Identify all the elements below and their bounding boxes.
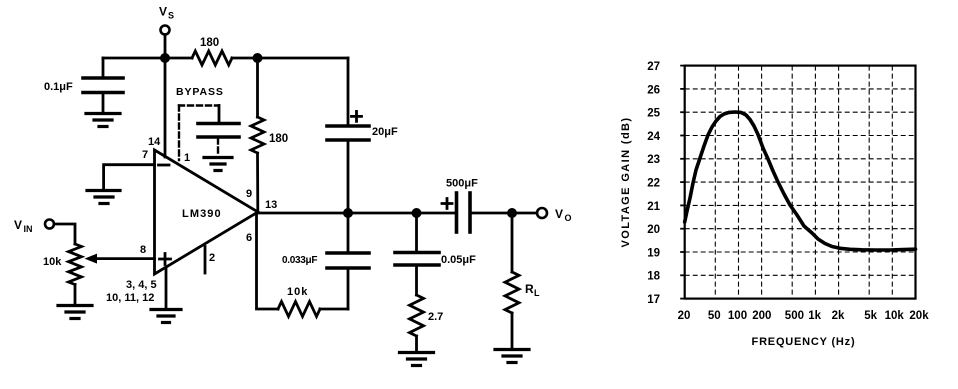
wire top rail right (232, 57, 348, 60)
node output junction 3 (507, 208, 517, 218)
svg-text:BYPASS: BYPASS (176, 86, 224, 98)
label RL (525, 282, 540, 298)
node Vs-rail junction (160, 53, 170, 63)
pin 13 (265, 199, 277, 211)
svg-text:500: 500 (785, 310, 804, 322)
ground below RL (495, 350, 529, 363)
label 0.05uF (441, 254, 476, 266)
svg-text:10k: 10k (885, 310, 905, 322)
wire 20uF top (347, 58, 350, 124)
wire top rail left (103, 57, 192, 60)
svg-text:L: L (534, 288, 540, 298)
wire 10k to 0.033 (320, 308, 348, 311)
x axis labels (678, 310, 930, 322)
resistor RL (505, 272, 519, 313)
svg-text:180: 180 (269, 133, 288, 145)
label pins 10,11,12 (106, 292, 154, 304)
pot wiper arrow (94, 257, 155, 260)
y axis labels (647, 61, 660, 306)
svg-text:20: 20 (678, 310, 691, 322)
pin 1 (184, 152, 190, 164)
op-amp U1 LM390 (155, 150, 259, 274)
svg-text:200: 200 (752, 310, 771, 322)
pin 8 (140, 244, 146, 256)
ground pin7 (87, 191, 120, 204)
svg-text:2: 2 (209, 252, 215, 264)
svg-text:2k: 2k (832, 310, 845, 322)
wire bypass dashed (179, 106, 219, 161)
svg-text:500μF: 500μF (446, 178, 478, 190)
label 10k feedback (287, 286, 308, 298)
wire pin14 supply (164, 58, 167, 157)
capacitor C 0.033uF (347, 213, 350, 251)
svg-text:25: 25 (647, 108, 660, 120)
pin 7 (142, 149, 148, 161)
svg-text:9: 9 (246, 188, 252, 200)
svg-text:20: 20 (647, 224, 660, 236)
label 10k pot (43, 256, 62, 268)
label 0.033uF (282, 255, 317, 266)
resistor R 2.7 (410, 295, 424, 336)
svg-text:O: O (565, 213, 572, 223)
wire minus input to ground (104, 165, 155, 189)
label 500uF (446, 178, 478, 190)
op-amp minus input mark (159, 164, 170, 167)
pin 14 (148, 136, 161, 148)
wire bypass cap to ground dashed (217, 139, 219, 157)
wire Vin to pot (54, 224, 75, 244)
svg-text:20μF: 20μF (372, 126, 398, 138)
svg-text:0.05μF: 0.05μF (441, 254, 476, 266)
capacitor C 20uF (327, 124, 369, 128)
node output junction 1 (343, 208, 353, 218)
ground gnd pins (151, 310, 181, 323)
svg-text:1: 1 (184, 152, 190, 164)
curve voltage gain (685, 112, 916, 250)
svg-text:10k: 10k (43, 256, 62, 268)
wire Vs to top rail (164, 35, 167, 59)
svg-text:20k: 20k (909, 310, 929, 322)
terminal Vo (537, 208, 547, 218)
label 20uF (372, 126, 398, 138)
svg-text:5k: 5k (864, 310, 877, 322)
wire output line (258, 212, 455, 215)
plot border (685, 66, 916, 299)
label LM390 (182, 208, 222, 220)
terminal Vin (45, 220, 54, 229)
svg-text:21: 21 (647, 201, 660, 213)
svg-text:7: 7 (142, 149, 148, 161)
svg-text:13: 13 (265, 199, 277, 211)
capacitor C 500uF (455, 193, 459, 232)
pin 9 (246, 188, 252, 200)
ground bypass (204, 158, 232, 171)
wire gnd pins stub (165, 268, 168, 309)
svg-text:IN: IN (24, 224, 33, 234)
svg-text:10, 11, 12: 10, 11, 12 (106, 292, 154, 304)
resistor R 10k feedback (278, 302, 320, 317)
ground below pot (58, 306, 92, 319)
wire bypass cap stub (218, 106, 221, 123)
label 2.7 (428, 311, 443, 323)
svg-text:26: 26 (647, 84, 660, 96)
svg-text:1k: 1k (808, 310, 821, 322)
y axis ticks (680, 66, 685, 299)
label 180 vertical (269, 133, 288, 145)
wire 20uF bottom (347, 142, 350, 213)
svg-text:V: V (159, 5, 167, 19)
label Vs (159, 5, 174, 21)
resistor R 180 (top) (192, 51, 232, 65)
terminal Vs (161, 26, 170, 35)
svg-text:VOLTAGE GAIN (dB): VOLTAGE GAIN (dB) (620, 117, 632, 248)
svg-text:FREQUENCY (Hz): FREQUENCY (Hz) (752, 336, 856, 348)
ground below 2.7 (400, 353, 434, 366)
svg-text:23: 23 (647, 154, 660, 166)
graph frequency response (620, 61, 929, 348)
pin 2 stub (204, 247, 207, 274)
svg-text:24: 24 (647, 131, 660, 143)
svg-text:V: V (14, 218, 22, 232)
svg-text:V: V (555, 207, 563, 221)
label 0.1uF (44, 81, 73, 93)
svg-text:17: 17 (647, 294, 660, 306)
node output junction 2 (412, 208, 422, 218)
svg-text:27: 27 (647, 61, 660, 73)
svg-text:10k: 10k (287, 286, 308, 298)
pin 2 (209, 252, 215, 264)
grid horizontal lines (685, 89, 916, 275)
svg-text:3, 4, 5: 3, 4, 5 (126, 279, 157, 291)
svg-text:LM390: LM390 (182, 208, 222, 220)
ground below 0.1uF (86, 114, 120, 127)
node rail junction (253, 53, 263, 63)
grid vertical lines (715, 66, 892, 299)
svg-text:180: 180 (200, 37, 219, 49)
svg-text:0.1μF: 0.1μF (44, 81, 73, 93)
label BYPASS (176, 86, 224, 98)
svg-text:22: 22 (647, 178, 660, 190)
capacitor C 0.1uF (102, 58, 105, 77)
op-amp plus input mark (160, 254, 171, 265)
resistor R 180 (vertical) (256, 58, 259, 117)
pin 6 (246, 232, 252, 244)
svg-text:19: 19 (647, 247, 660, 259)
svg-text:8: 8 (140, 244, 146, 256)
svg-text:100: 100 (728, 310, 747, 322)
svg-text:S: S (168, 11, 174, 21)
capacitor bypass (198, 122, 239, 126)
wire pin6 feedback (257, 214, 279, 309)
svg-text:6: 6 (246, 232, 252, 244)
label Vin (14, 218, 33, 234)
potentiometer R 10k (69, 244, 82, 285)
wire RL (511, 213, 514, 272)
wire 500uF to Vo (470, 212, 537, 215)
svg-text:14: 14 (148, 136, 161, 148)
svg-text:50: 50 (708, 310, 721, 322)
svg-text:2.7: 2.7 (428, 311, 443, 323)
label + 20uF (352, 111, 362, 121)
label + 500uF (442, 199, 452, 209)
svg-text:18: 18 (647, 271, 660, 283)
label 180 top (200, 37, 219, 49)
label Vo (555, 207, 572, 223)
svg-text:0.033μF: 0.033μF (282, 255, 317, 266)
capacitor C 0.05uF (415, 213, 418, 251)
label pins 3,4,5 (126, 279, 157, 291)
svg-text:R: R (525, 282, 534, 296)
